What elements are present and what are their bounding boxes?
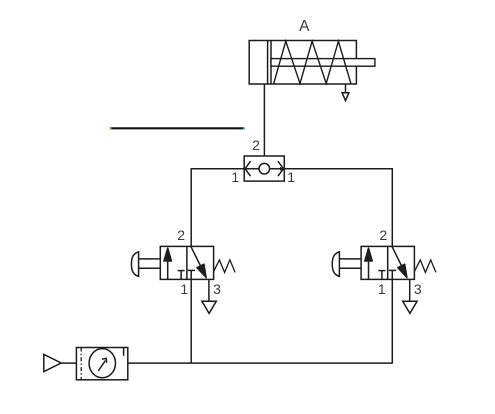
svg-text:1: 1: [378, 281, 386, 297]
valve V2 port label 2: [379, 227, 387, 243]
svg-text:2: 2: [252, 137, 260, 153]
valve V2 port label 1: [378, 281, 386, 297]
valve V1 exhaust flow arrow (2 to 3): [191, 246, 206, 277]
air service unit dash-dot line: [80, 348, 82, 380]
valve V2 return spring: [414, 260, 436, 273]
valve V2 body (3/2 pushbutton valve, right): [361, 246, 414, 279]
valve V2 exhaust silencer triangle: [403, 279, 417, 313]
shuttle valve port label 1 (right): [287, 169, 295, 185]
air service unit right tick: [123, 348, 125, 356]
valve V1 blocked port (right box): [188, 270, 195, 279]
air service unit Z1 body: [76, 348, 127, 380]
cylinder A exhaust arrow: [342, 84, 349, 100]
air service unit gauge needle arrow: [98, 358, 107, 371]
valve V2 exhaust flow arrow (2 to 3): [392, 246, 407, 277]
svg-text:1: 1: [287, 169, 295, 185]
valve V1 exhaust silencer triangle: [202, 279, 216, 313]
valve V2 pushbutton actuator: [332, 252, 361, 277]
shuttle valve U1 body: [244, 156, 284, 181]
valve V1 port label 3: [213, 281, 221, 297]
svg-text:1: 1: [180, 281, 188, 297]
compressed air source triangle: [44, 354, 77, 371]
valve V2 blocked port (right box): [389, 270, 396, 279]
valve V2 blocked port (left box): [378, 271, 385, 280]
wire valve V1 port 1 to supply: [190, 279, 192, 363]
wire cylinder port to shuttle valve port 2: [263, 84, 265, 156]
svg-text:2: 2: [379, 227, 387, 243]
valve V1 body (3/2 pushbutton valve, left): [160, 246, 213, 279]
cylinder A return spring: [274, 41, 351, 83]
wire shuttle left port to left valve port 2: [191, 169, 244, 247]
wire shuttle right port to right valve port 2: [284, 169, 392, 247]
cylinder A piston rod: [271, 59, 375, 67]
valve V1 return spring: [214, 260, 236, 273]
svg-text:3: 3: [213, 281, 221, 297]
svg-text:3: 3: [414, 281, 422, 297]
supply wire to valves: [128, 362, 393, 364]
label A (cylinder name): [299, 18, 310, 35]
shuttle valve internal flow line: [244, 168, 284, 170]
wire valve V2 port 1 to supply: [391, 279, 393, 363]
valve V2 port label 3: [414, 281, 422, 297]
shuttle valve port label 2: [252, 137, 260, 153]
valve V1 blocked port (left box): [178, 271, 185, 280]
valve V1 port label 1: [180, 281, 188, 297]
shuttle valve right seat: [278, 161, 284, 176]
valve V1 pushbutton actuator: [131, 252, 160, 277]
shuttle valve left seat: [245, 161, 251, 176]
cylinder A body: [249, 41, 356, 85]
shuttle valve port label 1 (left): [231, 169, 239, 185]
valve V2 flow arrow (actuated box, 1 to 2): [365, 248, 372, 279]
shuttle valve ball: [259, 163, 270, 174]
svg-text:A: A: [299, 18, 310, 35]
svg-text:2: 2: [177, 227, 185, 243]
svg-text:1: 1: [231, 169, 239, 185]
valve V1 port label 2: [177, 227, 185, 243]
separator line (drawn rule): [110, 127, 245, 130]
valve V1 flow arrow (actuated box, 1 to 2): [164, 248, 171, 279]
cylinder A piston (double line): [268, 41, 271, 85]
air service unit gauge circle: [89, 349, 115, 378]
